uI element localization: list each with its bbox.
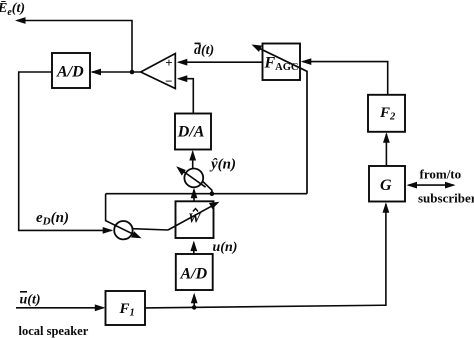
variable arrow through output scaler bbox=[176, 166, 205, 187]
variable arrow through W bbox=[168, 202, 220, 230]
hybrid G bbox=[369, 166, 405, 202]
multiplier circle (output scaler) bbox=[184, 169, 203, 188]
node d(t) label bbox=[194, 43, 214, 58]
adaptive filter W bbox=[176, 201, 214, 238]
wire error output to top-left arrow bbox=[15, 17, 132, 72]
junction on control line bbox=[210, 191, 215, 196]
control drop and variable arrow through error scaler bbox=[106, 194, 142, 239]
svg-text:+: + bbox=[165, 55, 172, 70]
wire D/A output to summer minus input bbox=[177, 75, 194, 113]
svg-text:−: − bbox=[165, 74, 172, 89]
wire F1 output to G bbox=[145, 202, 389, 308]
filter F2 bbox=[368, 95, 405, 132]
wire F2 output to F_AGC bbox=[301, 58, 388, 95]
junction at triangle output bbox=[130, 70, 135, 75]
node u(t) label bbox=[20, 291, 41, 308]
F_AGC automatic gain control block bbox=[263, 44, 301, 81]
svg-text:from/to: from/to bbox=[420, 167, 462, 182]
svg-text:ŷ(n): ŷ(n) bbox=[209, 157, 236, 173]
svg-text:local speaker: local speaker bbox=[19, 324, 89, 338]
wire d(t) from F_AGC to summer plus input bbox=[177, 59, 263, 66]
svg-text:G: G bbox=[380, 177, 392, 194]
wire error scaler to W variable arrow bbox=[133, 229, 168, 230]
wire junction up to A/D (bottom) bbox=[191, 293, 198, 308]
wire triangle output into A/D bbox=[91, 69, 141, 76]
svg-text:u(t): u(t) bbox=[20, 293, 41, 308]
wire u(t) input to F1 bbox=[16, 304, 105, 311]
junction at F1 output bbox=[192, 305, 197, 310]
D/A converter bbox=[175, 114, 211, 150]
op-amp summer triangle bbox=[141, 54, 176, 89]
svg-text:d(t): d(t) bbox=[194, 43, 214, 58]
svg-text:W: W bbox=[188, 212, 202, 227]
node Ee(t) output label bbox=[0, 0, 25, 18]
A/D converter (top) bbox=[52, 53, 90, 88]
control line up to AGC variable arrow bbox=[252, 45, 308, 194]
from/to subscriber double arrow bbox=[407, 182, 456, 189]
svg-text:subscriber: subscriber bbox=[418, 191, 474, 206]
node y(n) label bbox=[209, 157, 236, 173]
svg-text:Ēe(t): Ēe(t) bbox=[0, 0, 25, 18]
svg-text:eD(n): eD(n) bbox=[36, 210, 69, 228]
wire scaler control tap bbox=[202, 181, 212, 194]
wire W output y(n) to scaler bbox=[191, 188, 198, 202]
wire e_D(n) from A/D to error scaler bbox=[19, 72, 114, 234]
svg-text:A/D: A/D bbox=[56, 64, 84, 81]
filter F1 bbox=[106, 291, 146, 325]
A/D converter (bottom) bbox=[176, 254, 213, 290]
svg-text:u(n): u(n) bbox=[213, 240, 238, 255]
wire A/D to W bbox=[190, 241, 197, 254]
wire G to F2 bbox=[383, 132, 390, 166]
multiplier circle (error scaler) bbox=[114, 221, 132, 239]
control line horizontal bbox=[106, 193, 307, 195]
svg-text:D/A: D/A bbox=[177, 124, 205, 141]
svg-text:A/D: A/D bbox=[180, 266, 208, 283]
wire multiplier to D/A bbox=[189, 150, 196, 169]
